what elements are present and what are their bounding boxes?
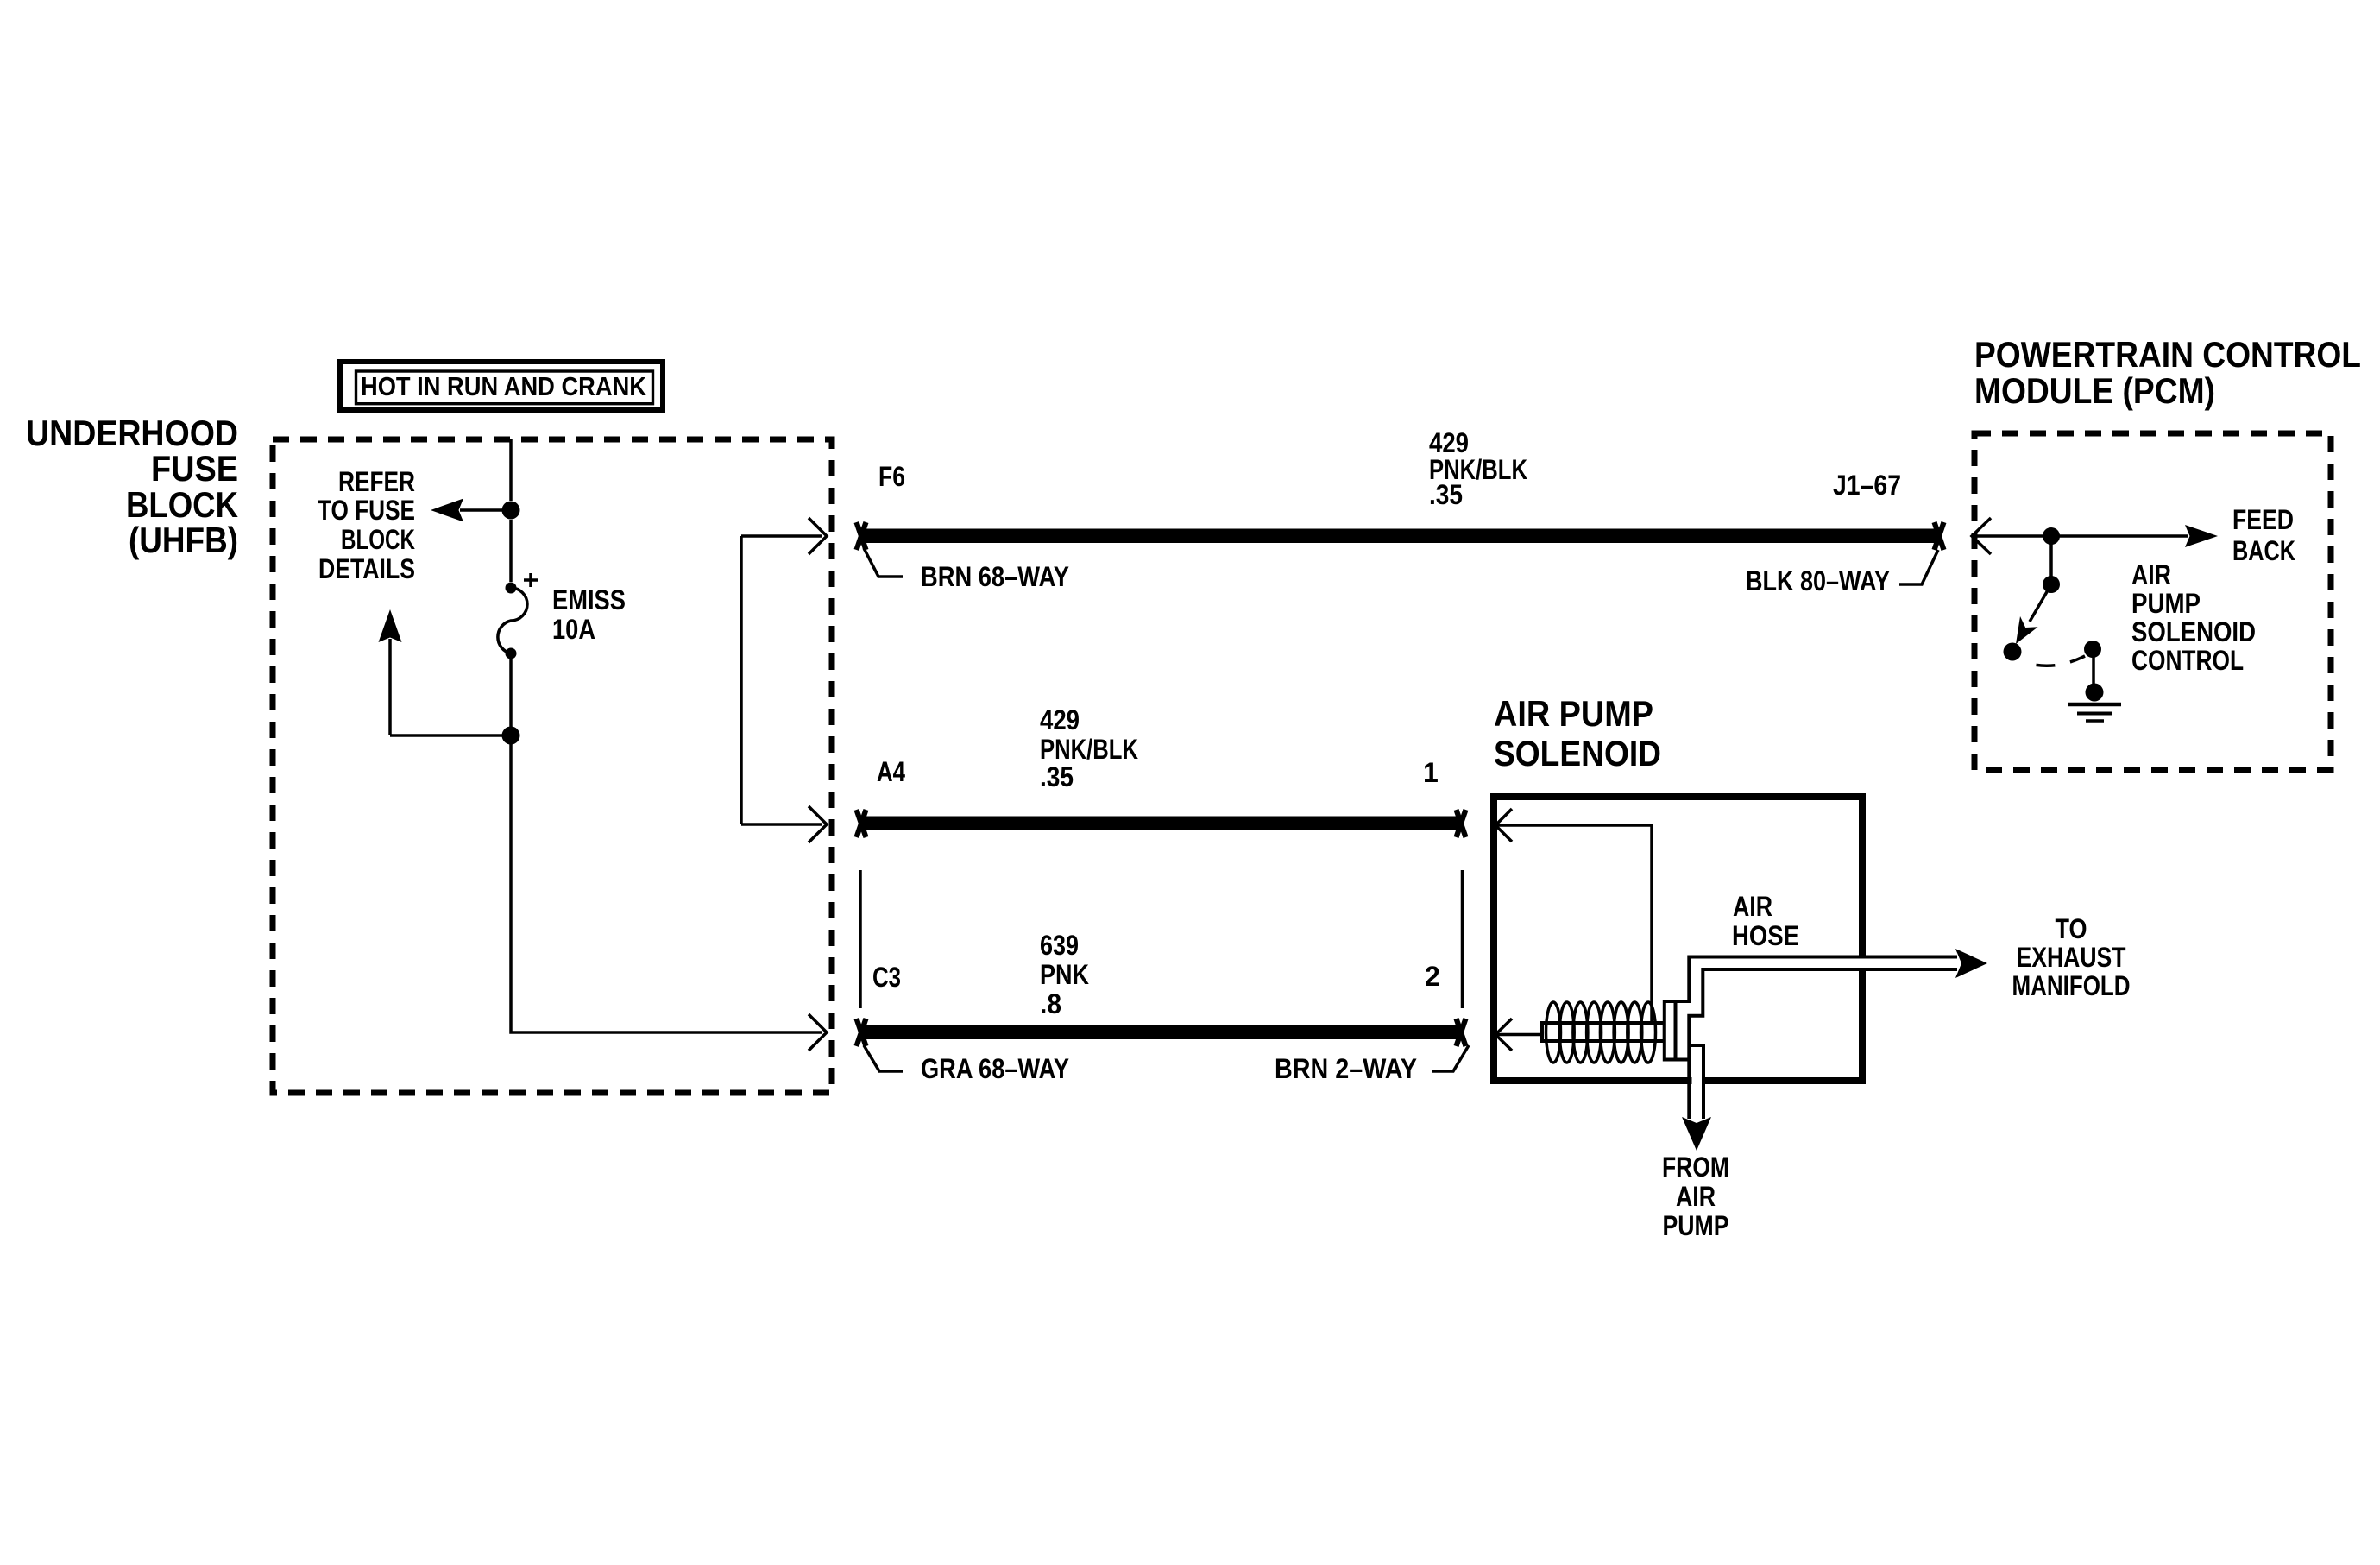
wire: arrow to REFER TO FUSE BLOCK DETAILS [431,499,511,522]
svg-text:.8: .8 [1040,988,1061,1019]
label: FROM AIR PUMP [1662,1152,1729,1241]
svg-text:UNDERHOOD: UNDERHOOD [26,413,238,453]
svg-text:REFER: REFER [338,466,415,497]
label: AIR HOSE [1732,891,1799,951]
node: ground terminal [2086,684,2104,702]
svg-text:C3: C3 [872,962,901,993]
open arrow into F6 [809,518,827,554]
svg-text:MANIFOLD: MANIFOLD [2012,970,2131,1001]
svg-text:BRN 68–WAY: BRN 68–WAY [921,561,1069,592]
svg-text:BRN 2–WAY: BRN 2–WAY [1275,1053,1417,1084]
label: 429 PNK/BLK .35 (middle wire) [1040,704,1138,792]
svg-text:FROM: FROM [1662,1152,1729,1183]
label: 639 PNK .8 [1040,930,1089,1019]
svg-text:EXHAUST: EXHAUST [2017,942,2126,973]
connector X at C3 end [857,1019,866,1046]
solenoid coil windings [1546,1002,1656,1063]
PCM dashed box [1974,433,2331,770]
label: 429 PNK/BLK .35 (top wire) [1429,427,1527,510]
svg-text:10A: 10A [552,614,595,645]
connector bracket lines between A4 and C3 [860,870,1463,1008]
svg-text:MODULE (PCM): MODULE (PCM) [1974,370,2215,411]
open arrow out at C3 [809,1014,827,1051]
svg-text:PUMP: PUMP [2131,588,2201,619]
wire route pin1 to coil [1495,825,1652,1023]
svg-text:A4: A4 [877,756,905,787]
svg-text:2: 2 [1425,961,1440,992]
svg-text:TO FUSE: TO FUSE [318,495,415,526]
wire: branch to up arrow [379,609,512,735]
svg-text:PNK: PNK [1040,959,1089,990]
fuse EMISS 10A [498,573,538,659]
svg-text:BLK 80–WAY: BLK 80–WAY [1746,565,1890,596]
wire: throw to ground [2092,649,2095,688]
wire: internal bus to F6 and A4 [741,536,822,824]
connector X at F6 end [857,522,866,550]
wire route pin2 to coil core [1495,1033,1542,1037]
PCM entry chevron [1972,518,1991,554]
connector X at A4 end [857,810,866,837]
svg-text:.35: .35 [1429,479,1463,510]
svg-text:BLOCK: BLOCK [126,484,238,525]
leader + label BRN 2-WAY [1275,1045,1469,1084]
svg-text:639: 639 [1040,930,1079,961]
node: junction at up-arrow branch [502,727,520,745]
svg-text:PNK/BLK: PNK/BLK [1040,734,1138,765]
connector X at pin 2 end [1457,1019,1466,1046]
node: junction dot at refer-arrow [502,502,520,520]
label: REFER TO FUSE BLOCK DETAILS [318,466,415,584]
svg-text:BLOCK: BLOCK [341,524,415,555]
solenoid armature plate [1665,1001,1676,1060]
node: switch throw (open) [2004,643,2022,661]
label: POWERTRAIN CONTROL MODULE (PCM) [1974,334,2361,411]
label: FEED BACK [2232,504,2295,566]
leader + label BRN 68-WAY [864,548,1069,592]
svg-text:AIR: AIR [1676,1181,1716,1212]
feedback wire [1974,534,2188,538]
leader + label GRA 68-WAY [864,1045,1069,1084]
svg-text:CONTROL: CONTROL [2131,645,2244,676]
leader + label BLK 80-WAY [1746,550,1938,596]
node: switch throw to ground [2084,641,2101,658]
svg-text:GRA 68–WAY: GRA 68–WAY [921,1053,1069,1084]
label: AIR PUMP SOLENOID CONTROL [2131,559,2256,676]
solenoid coil core [1542,1023,1665,1041]
svg-text:FEED: FEED [2232,504,2294,535]
dashed travel arc [2021,656,2085,666]
svg-text:AIR: AIR [1733,891,1772,922]
svg-text:AIR: AIR [2131,559,2171,590]
switch blade with arrow [2030,584,2051,622]
label: TO EXHAUST MANIFOLD [2012,913,2131,1001]
wire: fuse output down to C3 branch [509,659,513,727]
svg-text:1: 1 [1423,757,1439,788]
svg-text:AIR PUMP: AIR PUMP [1494,693,1653,734]
air hose arrow to exhaust [1955,949,1987,978]
connector X at pin 1 end [1457,810,1466,837]
svg-text:BACK: BACK [2232,535,2295,566]
svg-text:429: 429 [1040,704,1080,735]
node: switch common terminal [2043,576,2060,593]
hot-in-run-and-crank banner box [340,362,663,410]
wire: fuse feed vertical inside UHFB [509,439,513,582]
label: EMISS 10A [552,584,626,645]
open arrow into pin1 [1495,809,1512,842]
UHFB dashed box [273,439,832,1093]
label: AIR PUMP SOLENOID title [1494,693,1661,773]
svg-text:SOLENOID: SOLENOID [2131,616,2256,647]
svg-text:TO: TO [2056,913,2087,944]
svg-text:DETAILS: DETAILS [318,553,415,584]
label: UNDERHOOD FUSE BLOCK (UHFB) [26,413,238,560]
svg-text:POWERTRAIN CONTROL: POWERTRAIN CONTROL [1974,334,2361,375]
svg-text:PUMP: PUMP [1663,1210,1729,1241]
ground symbol [2068,704,2121,721]
svg-text:HOT IN RUN AND CRANK: HOT IN RUN AND CRANK [361,371,647,401]
wire: fuse output to C3 exit [511,744,822,1032]
svg-text:J1–67: J1–67 [1833,470,1901,501]
air pump solenoid box [1494,797,1862,1081]
white gap where hose crosses box right edge [1855,959,1869,969]
svg-text:F6: F6 [878,461,905,492]
svg-text:(UHFB): (UHFB) [129,520,238,560]
svg-text:HOSE: HOSE [1732,920,1799,951]
open arrow into A4 [809,806,827,842]
svg-text:.35: .35 [1040,761,1074,792]
wire 429 PNK/BLK F6 to J1-67 (thick) [859,529,1938,544]
wire: switch common drop [2049,536,2053,584]
svg-text:FUSE: FUSE [151,448,238,489]
white gap where channel crosses box bottom edge [1692,1074,1703,1088]
svg-text:EMISS: EMISS [552,584,626,615]
wire 429 PNK/BLK A4 to pin1 (thick) [859,817,1461,831]
connector X at J1-67 end [1935,522,1944,550]
open arrow into pin2 [1495,1019,1512,1051]
wire 639 PNK C3 to pin2 (thick) [859,1025,1461,1040]
valve / air channel outline [1676,957,1958,1120]
from air pump arrow [1682,1117,1711,1151]
switch: node on feedback line [2043,527,2060,545]
svg-text:SOLENOID: SOLENOID [1494,733,1661,773]
